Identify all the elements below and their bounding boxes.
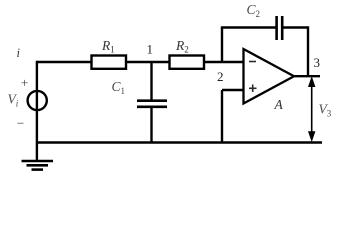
svg-text:Vi: Vi	[8, 92, 19, 109]
op-amp A triangle	[244, 49, 295, 104]
wire feedback right vertical down to output node 3	[307, 26, 309, 76]
wire feedback top run (right of C2)	[282, 26, 308, 28]
wire output	[292, 75, 320, 77]
op-amp minus input mark	[249, 61, 256, 63]
voltage source Vi	[28, 91, 47, 110]
op-amp plus input mark	[249, 85, 257, 93]
wire plus input vertical down to rail	[221, 90, 223, 143]
svg-text:V3: V3	[319, 102, 332, 119]
svg-text:1: 1	[147, 42, 154, 57]
capacitor C2	[277, 16, 283, 40]
wire left vertical through source	[36, 61, 38, 161]
svg-text:C1: C1	[112, 79, 126, 96]
svg-text:3: 3	[314, 55, 321, 70]
wire C1 bottom to rail	[150, 107, 152, 143]
svg-text:+: +	[21, 75, 28, 90]
wire top rail from source to op-amp minus input	[37, 61, 244, 63]
svg-text:2: 2	[217, 69, 224, 84]
V3 arrow (double headed)	[309, 79, 314, 140]
node 1 vertical wire to C1	[150, 62, 152, 101]
resistor R2	[170, 56, 205, 69]
wire plus input horizontal	[222, 89, 244, 91]
svg-text:A: A	[274, 97, 284, 112]
wire feedback tap up from node 2	[221, 28, 223, 63]
svg-text:R2: R2	[175, 38, 189, 55]
svg-text:R1: R1	[101, 38, 115, 55]
capacitor C1	[137, 101, 167, 107]
svg-text:C2: C2	[247, 2, 261, 19]
ground	[22, 161, 54, 170]
svg-text:i: i	[17, 46, 21, 60]
bottom rail	[37, 141, 322, 143]
resistor R1	[92, 56, 127, 69]
wire feedback top run (left of C2)	[221, 26, 277, 28]
svg-text:−: −	[17, 116, 24, 131]
